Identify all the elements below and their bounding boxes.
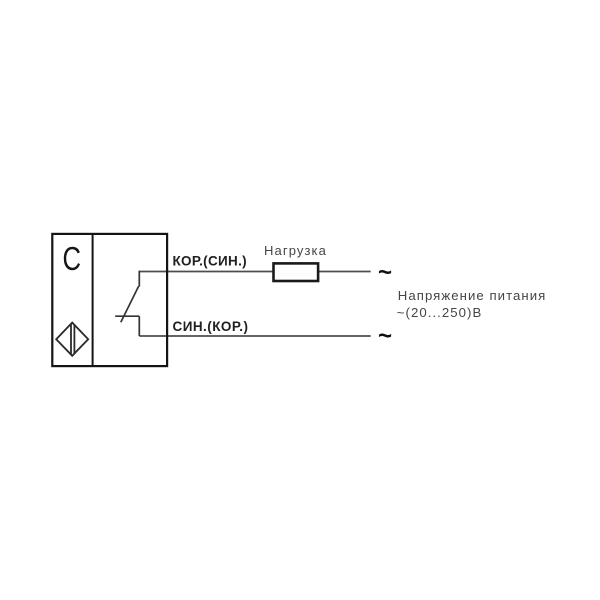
svg-text:Напряжение питания: Напряжение питания bbox=[398, 288, 547, 303]
svg-text:СИН.(КОР.): СИН.(КОР.) bbox=[173, 319, 249, 334]
svg-text:КОР.(СИН.): КОР.(СИН.) bbox=[173, 253, 247, 268]
svg-text:~: ~ bbox=[378, 323, 392, 350]
svg-text:Нагрузка: Нагрузка bbox=[264, 243, 327, 258]
svg-text:С: С bbox=[62, 240, 81, 277]
svg-text:~: ~ bbox=[378, 259, 392, 286]
svg-text:~(20...250)В: ~(20...250)В bbox=[397, 305, 483, 320]
